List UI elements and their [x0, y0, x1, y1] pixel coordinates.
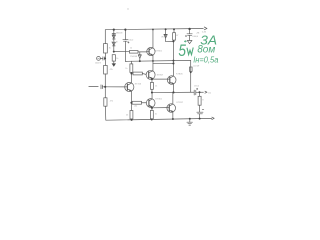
svg-text:1k: 1k	[125, 68, 127, 70]
svg-text:KT361: KT361	[156, 98, 163, 100]
svg-text:15: 15	[155, 86, 157, 88]
svg-text:Iн=0,5а: Iн=0,5а	[193, 56, 219, 65]
svg-text:1N4148: 1N4148	[111, 42, 118, 44]
svg-text:1N4148: 1N4148	[116, 32, 123, 34]
svg-text:47k: 47k	[110, 69, 113, 71]
svg-text:100mV: 100mV	[95, 63, 102, 65]
svg-text:43: 43	[126, 114, 128, 116]
svg-text:KT807: KT807	[157, 74, 164, 76]
svg-text:15: 15	[155, 114, 157, 116]
svg-text:Out: Out	[208, 91, 212, 94]
svg-text:1N4148: 1N4148	[130, 56, 137, 58]
svg-text:KT805: KT805	[176, 73, 183, 75]
svg-text:VD7: VD7	[161, 36, 165, 38]
svg-text:470,0: 470,0	[194, 85, 199, 87]
svg-text:KT315: KT315	[135, 83, 142, 85]
svg-text:2k2: 2k2	[134, 105, 137, 107]
svg-text:3k: 3k	[109, 48, 111, 50]
svg-text:8: 8	[202, 99, 203, 101]
svg-text:KT801: KT801	[156, 51, 163, 53]
svg-text:1k: 1k	[130, 48, 132, 50]
svg-text:1000,0: 1000,0	[192, 36, 198, 38]
svg-text:0,5 5W: 0,5 5W	[193, 66, 199, 68]
svg-text:47: 47	[176, 35, 178, 37]
svg-text:KT837: KT837	[177, 102, 184, 104]
svg-text:1k: 1k	[116, 58, 118, 60]
svg-text:5: 5	[178, 41, 186, 60]
svg-text:100,0: 100,0	[128, 40, 133, 42]
svg-text:47k: 47k	[110, 101, 113, 103]
svg-text:ом: ом	[203, 45, 216, 56]
